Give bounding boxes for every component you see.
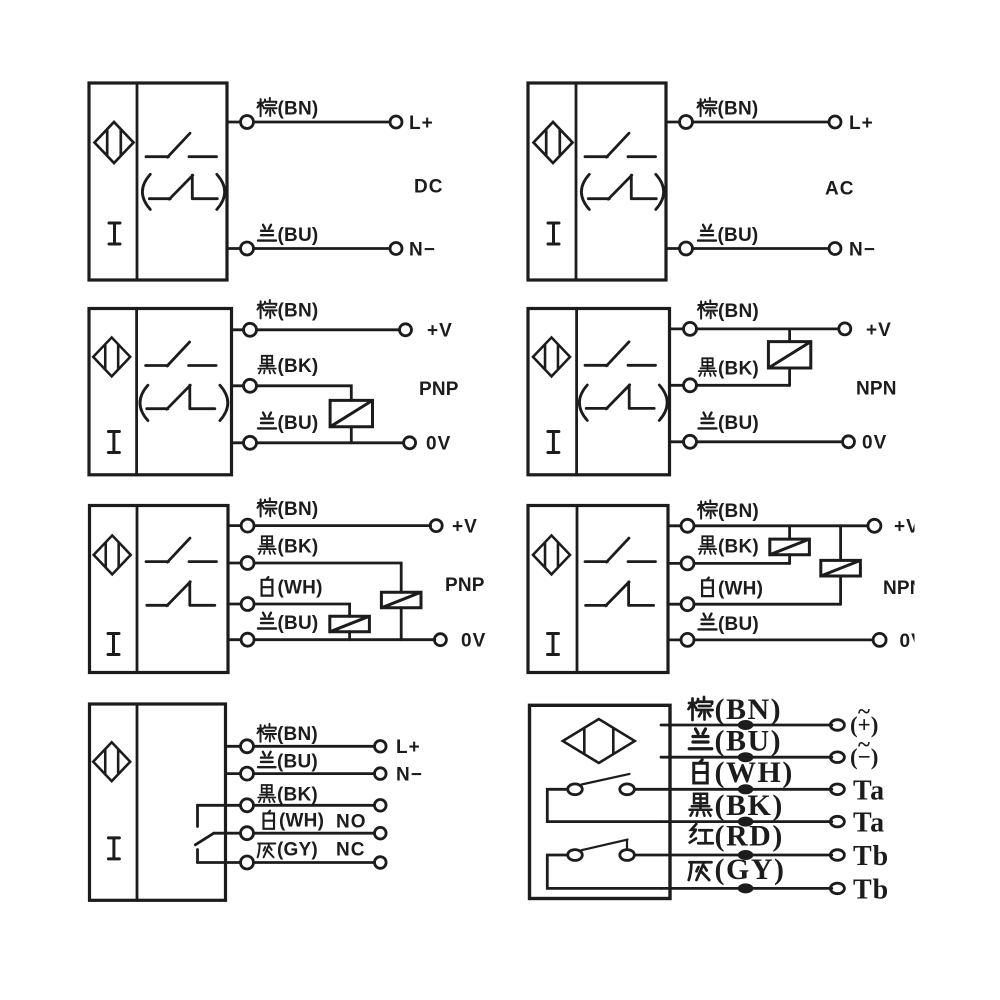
- label black wire 黑(BK): [258, 784, 318, 805]
- contact b left pole circle: [568, 850, 583, 861]
- right parenthesis: [217, 174, 225, 209]
- sensor U1 inductive head symbol: [95, 122, 134, 163]
- wire black output to load: [257, 386, 352, 401]
- sensor U7 internal divider: [136, 704, 139, 900]
- terminal +V circle: [400, 324, 412, 336]
- sensor U8 body (AC/DC photoelectric switch with Ta/Tb contacts): [530, 705, 671, 898]
- label brown wire 棕(BN): [257, 98, 318, 120]
- svg-text:Tb: Tb: [853, 841, 889, 872]
- sensor U3 body (PNP 3-wire proximity switch): [89, 309, 232, 475]
- sensor U1 roman numeral I marking: [109, 223, 120, 244]
- sensor U7 inductive head symbol: [93, 742, 130, 781]
- node blue wire circle: [244, 436, 257, 449]
- sensor U2 internal divider: [575, 83, 578, 280]
- sensor U3 internal divider: [135, 309, 138, 475]
- wire U6 brown stub: [668, 524, 681, 527]
- right parenthesis: [220, 385, 228, 420]
- wire U4 blue stub: [670, 440, 684, 443]
- label blue wire 兰(BU): [258, 751, 318, 772]
- label (-) with tilde: [850, 732, 878, 770]
- node brown wire circle: [681, 519, 694, 532]
- label (+) with tilde: [850, 699, 878, 737]
- label black wire 黑(BK): [258, 536, 318, 557]
- terminal +V circle: [839, 323, 851, 335]
- wire U5 white stub: [228, 603, 241, 606]
- label blue wire 兰(BU): [699, 413, 759, 434]
- sensor U3 NC contact symbol (in parentheses): [147, 385, 215, 409]
- terminal +V circle: [430, 520, 442, 532]
- svg-text:(BN): (BN): [718, 301, 759, 322]
- sensor U5 inductive head symbol: [94, 535, 131, 574]
- node brown wire circle: [241, 116, 254, 129]
- svg-text:(BU): (BU): [715, 724, 783, 757]
- right parenthesis: [659, 385, 667, 420]
- svg-text:+V: +V: [452, 517, 478, 538]
- wire blue supply: [661, 756, 832, 759]
- svg-text:(BK): (BK): [278, 356, 319, 377]
- svg-text:(WH): (WH): [718, 579, 763, 600]
- node black wire circle: [684, 379, 697, 392]
- wire load1 to black output: [788, 555, 791, 564]
- label grey wire 灰(GY): [258, 839, 318, 860]
- node brown wire circle: [244, 323, 257, 336]
- wire load to 0V rail: [350, 427, 353, 443]
- terminal N- circle: [375, 768, 387, 780]
- wire U6 blue stub: [668, 639, 681, 642]
- wire white output to load: [254, 604, 350, 616]
- svg-text:(BK): (BK): [277, 784, 318, 805]
- sensor U6 NC contact symbol: [586, 582, 654, 606]
- wire load to black output: [788, 368, 791, 385]
- wire black to terminal: [254, 804, 375, 807]
- svg-text:(BN): (BN): [278, 301, 319, 322]
- load resistor (+V to black): [768, 342, 810, 368]
- wire brown to L+: [254, 745, 375, 748]
- wire blue to 0V: [697, 440, 843, 443]
- wire U4 brown stub: [670, 327, 684, 330]
- wire red Tb: [634, 854, 831, 857]
- contact b right pole circle: [620, 850, 635, 861]
- terminal Tb circle: [830, 883, 844, 894]
- svg-text:(BU): (BU): [718, 614, 759, 635]
- sensor U5 NC contact symbol: [147, 582, 215, 606]
- svg-text:NPN: NPN: [883, 578, 924, 599]
- svg-text:NC: NC: [336, 840, 365, 861]
- junction dot grey wire: [738, 883, 754, 893]
- load resistor (white to 0V): [330, 616, 370, 632]
- label blue wire 兰(BU): [699, 614, 759, 635]
- sensor U3 inductive head symbol: [93, 337, 130, 376]
- sensor U6 internal divider: [576, 506, 579, 673]
- label white wire 白(WH): [702, 578, 763, 600]
- terminal L+ circle: [829, 116, 841, 128]
- wire white Ta: [634, 788, 831, 791]
- terminal N- circle: [390, 243, 402, 255]
- sensor U1 body (DC 2-wire proximity switch): [89, 83, 227, 280]
- sensor U2 NO contact symbol: [585, 133, 656, 157]
- sensor U4 internal divider: [575, 309, 578, 475]
- svg-text:Ta: Ta: [853, 775, 885, 806]
- wire brown to +V: [257, 328, 400, 331]
- svg-text:(BN): (BN): [715, 693, 783, 726]
- svg-text:(BN): (BN): [718, 99, 759, 120]
- svg-text:(BU): (BU): [718, 225, 759, 246]
- node blue wire circle: [241, 767, 254, 780]
- node blue wire circle: [241, 633, 254, 646]
- wire blue to N-: [254, 772, 375, 775]
- terminal L+ circle: [390, 116, 402, 128]
- svg-text:L+: L+: [849, 113, 874, 134]
- node black wire circle: [681, 557, 694, 570]
- terminal Tb circle: [830, 850, 844, 861]
- svg-text:(BK): (BK): [278, 537, 319, 558]
- svg-text:(RD): (RD): [715, 820, 784, 853]
- left parenthesis: [140, 385, 148, 420]
- wire U5 blue stub: [228, 638, 241, 641]
- svg-text:(BN): (BN): [278, 99, 319, 120]
- terminal Ta circle: [830, 816, 844, 827]
- label brown wire 棕(BN): [697, 98, 758, 120]
- svg-text:PNP: PNP: [419, 379, 459, 400]
- sensor U2 inductive head symbol: [534, 122, 573, 163]
- node brown wire circle: [680, 116, 693, 129]
- sensor U4 roman numeral I marking: [548, 432, 559, 453]
- wire U3 brown stub: [232, 328, 244, 331]
- svg-text:NO: NO: [336, 812, 367, 833]
- wire blue to 0V: [257, 441, 404, 444]
- node blue wire circle: [680, 242, 693, 255]
- wire brown supply: [661, 724, 832, 727]
- terminal Ta circle: [830, 784, 844, 795]
- label brown wire 棕(BN): [257, 724, 318, 745]
- sensor U4 NO contact symbol: [585, 342, 656, 366]
- node black wire circle: [244, 379, 257, 392]
- svg-text:+V: +V: [866, 320, 892, 341]
- label white wire 白(WH): [263, 811, 324, 832]
- wire white output: [694, 603, 841, 606]
- svg-text:(BU): (BU): [278, 225, 319, 246]
- terminal 0V circle: [843, 436, 855, 448]
- terminal +V circle: [868, 519, 881, 532]
- label blue wire 兰(BU): [698, 225, 758, 246]
- label black wire 黑(BK): [258, 356, 318, 377]
- node blue wire circle: [681, 633, 694, 646]
- sensor U4 inductive head symbol: [533, 337, 570, 376]
- svg-text:(WH): (WH): [715, 756, 794, 789]
- node white wire circle: [241, 598, 254, 611]
- wire black Ta: [661, 820, 832, 823]
- wire brown to +V: [697, 327, 839, 330]
- svg-text:N−: N−: [396, 765, 423, 786]
- terminal grey circle: [375, 857, 387, 869]
- label blue wire 兰(BU): [689, 724, 782, 757]
- wire brown to +V: [254, 524, 431, 527]
- wire U7 brown stub: [226, 745, 241, 748]
- wire U6 black stub: [668, 562, 681, 565]
- svg-text:L+: L+: [396, 737, 421, 758]
- terminal (-) circle: [830, 752, 844, 763]
- contact a left pole circle: [568, 784, 583, 795]
- wire blue to N-: [693, 247, 830, 250]
- terminal black circle: [375, 800, 387, 812]
- svg-text:NPN: NPN: [856, 379, 897, 400]
- node black wire circle: [241, 557, 254, 570]
- svg-text:(BK): (BK): [715, 789, 784, 822]
- sensor U4 body (NPN 3-wire proximity switch): [528, 309, 670, 475]
- sensor U6 roman numeral I marking: [548, 634, 559, 655]
- svg-text:(GY): (GY): [715, 853, 786, 886]
- label black wire 黑(BK): [699, 536, 759, 557]
- terminal 0V circle: [873, 633, 886, 646]
- svg-text:+V: +V: [894, 517, 920, 538]
- terminal L+ circle: [375, 741, 387, 753]
- node brown wire circle: [684, 322, 697, 335]
- label brown wire 棕(BN): [698, 500, 759, 522]
- wire black output to load: [254, 563, 401, 592]
- wire load to 0V rail: [348, 632, 351, 640]
- wire U5 brown stub: [228, 524, 241, 527]
- sensor U6 body (NPN 4-wire proximity switch): [528, 506, 668, 673]
- left parenthesis: [579, 385, 587, 420]
- load resistor (black to 0V): [330, 400, 372, 426]
- wire grey Tb: [661, 887, 832, 890]
- label black wire 黑(BK): [690, 789, 784, 822]
- wire brown to L+: [693, 121, 830, 124]
- label grey wire 灰(GY): [689, 853, 786, 886]
- svg-text:L+: L+: [409, 113, 434, 134]
- svg-text:(BK): (BK): [718, 537, 759, 558]
- svg-text:(BN): (BN): [718, 501, 759, 522]
- wire U2 blue stub: [666, 247, 680, 250]
- svg-text:AC: AC: [825, 179, 854, 200]
- wire U3 blue stub: [232, 441, 244, 444]
- svg-text:(BU): (BU): [277, 751, 318, 772]
- wire U3 black stub: [232, 384, 244, 387]
- svg-text:(BK): (BK): [718, 358, 759, 379]
- wire black output: [697, 384, 790, 387]
- sensor U5 NO contact symbol: [146, 538, 217, 562]
- wire brown to +V: [694, 524, 868, 527]
- right parenthesis: [656, 174, 664, 209]
- junction dot blue wire: [738, 752, 754, 762]
- wire white to terminal: [254, 832, 375, 835]
- label black wire 黑(BK): [699, 358, 759, 379]
- sensor U4 NC contact symbol (in parentheses): [586, 385, 654, 409]
- node white wire circle: [241, 827, 254, 840]
- label blue wire 兰(BU): [258, 613, 318, 634]
- sensor U6 inductive head symbol: [533, 535, 570, 574]
- wire blue to 0V: [694, 639, 873, 642]
- contact a lever: [582, 774, 630, 785]
- wire U7 blue stub: [226, 772, 241, 775]
- wire contact a left to black: [547, 789, 661, 821]
- wire junction +V down to load: [788, 329, 791, 342]
- sensor U2 roman numeral I marking: [548, 223, 559, 244]
- terminal 0V circle: [434, 634, 446, 646]
- wire U2 brown stub: [666, 121, 680, 124]
- terminal N- circle: [829, 243, 841, 255]
- label red wire 红(RD): [690, 820, 784, 853]
- contact b lever with end tick: [582, 840, 628, 851]
- sensor U2 NC contact symbol (in parentheses): [588, 175, 656, 199]
- relay NC fixed contact lead: [196, 850, 199, 863]
- wire load2 to white output: [839, 576, 842, 604]
- junction dot brown wire: [738, 720, 754, 730]
- svg-text:(WH): (WH): [279, 811, 324, 832]
- node blue wire circle: [241, 242, 254, 255]
- label brown wire 棕(BN): [689, 693, 783, 726]
- wire white NO: [214, 832, 241, 835]
- sensor U1 NC contact symbol (in parentheses): [149, 175, 217, 199]
- label brown wire 棕(BN): [257, 498, 318, 520]
- sensor U7 body (relay output 5-wire proximity switch): [90, 704, 226, 900]
- node white wire circle: [681, 598, 694, 611]
- svg-text:N−: N−: [409, 239, 436, 260]
- terminal 0V circle: [404, 437, 416, 449]
- sensor U6 NO contact symbol: [585, 538, 656, 562]
- sensor U5 internal divider: [136, 506, 139, 673]
- svg-text:Ta: Ta: [853, 808, 885, 839]
- svg-text:DC: DC: [414, 177, 443, 198]
- sensor U5 body (PNP 4-wire proximity switch): [90, 506, 229, 673]
- terminal (+) circle: [830, 720, 844, 731]
- label white wire 白(WH): [262, 577, 323, 599]
- svg-text:(BN): (BN): [278, 499, 319, 520]
- wire junction +V down to load2: [839, 526, 842, 561]
- wire load to 0V rail: [400, 608, 403, 640]
- load resistor (+V to white): [821, 560, 861, 576]
- wire blue to N-: [254, 247, 391, 250]
- node grey wire circle: [241, 856, 254, 869]
- wire U1 brown stub: [227, 121, 241, 124]
- svg-text:0V: 0V: [461, 631, 486, 652]
- sensor U3 roman numeral I marking: [108, 432, 119, 453]
- wire black common (relay): [198, 804, 241, 807]
- load resistor (+V to black): [770, 539, 810, 555]
- sensor U8 inductive head symbol: [563, 719, 635, 763]
- wire blue to 0V: [254, 638, 435, 641]
- svg-text:0V: 0V: [426, 434, 451, 455]
- svg-text:(GY): (GY): [277, 839, 318, 860]
- contact a right pole circle: [620, 784, 635, 795]
- svg-text:(−): (−): [850, 745, 878, 770]
- svg-text:(BU): (BU): [718, 413, 759, 434]
- wire U4 black stub: [670, 384, 684, 387]
- label white wire 白(WH): [694, 756, 794, 789]
- wire grey NC: [198, 861, 241, 864]
- svg-text:(BU): (BU): [278, 613, 319, 634]
- left parenthesis: [142, 174, 150, 209]
- svg-text:(BU): (BU): [278, 413, 319, 434]
- node blue wire circle: [684, 435, 697, 448]
- junction dot red wire: [738, 850, 754, 860]
- left parenthesis: [581, 174, 589, 209]
- wire grey to terminal: [254, 861, 375, 864]
- wire U1 blue stub: [227, 247, 241, 250]
- node brown wire circle: [241, 740, 254, 753]
- wire contact b left to grey: [547, 855, 661, 888]
- sensor U7 roman numeral I marking: [108, 838, 119, 859]
- svg-text:(WH): (WH): [278, 578, 323, 599]
- label blue wire 兰(BU): [258, 413, 318, 434]
- wire U5 black stub: [228, 562, 241, 565]
- svg-text:(BN): (BN): [277, 724, 318, 745]
- relay common down-lead: [196, 805, 199, 826]
- svg-text:0V: 0V: [862, 433, 887, 454]
- sensor U1 NO contact symbol: [146, 133, 217, 157]
- svg-text:+V: +V: [427, 321, 453, 342]
- wire junction +V down to load1: [788, 526, 791, 539]
- label brown wire 棕(BN): [698, 300, 759, 322]
- sensor U2 body (AC 2-wire proximity switch): [528, 83, 666, 280]
- sensor U1 internal divider: [136, 83, 139, 280]
- relay movable contact arm: [195, 833, 214, 845]
- label blue wire 兰(BU): [258, 225, 318, 246]
- node brown wire circle: [241, 519, 254, 532]
- node black wire circle: [241, 799, 254, 812]
- svg-text:0V: 0V: [900, 631, 925, 652]
- wire black output: [694, 562, 790, 565]
- junction dot white wire: [738, 784, 754, 794]
- label brown wire 棕(BN): [257, 300, 318, 322]
- sensor U3 NO contact symbol: [146, 342, 217, 366]
- sensor U5 roman numeral I marking: [108, 634, 119, 655]
- terminal white circle: [375, 827, 387, 839]
- svg-text:PNP: PNP: [445, 575, 485, 596]
- wire U6 white stub: [668, 603, 681, 606]
- load resistor (black to 0V): [381, 592, 421, 608]
- junction dot black wire: [738, 817, 754, 827]
- svg-text:N−: N−: [849, 239, 876, 260]
- wire brown to L+: [254, 121, 391, 124]
- svg-text:Tb: Tb: [853, 874, 889, 905]
